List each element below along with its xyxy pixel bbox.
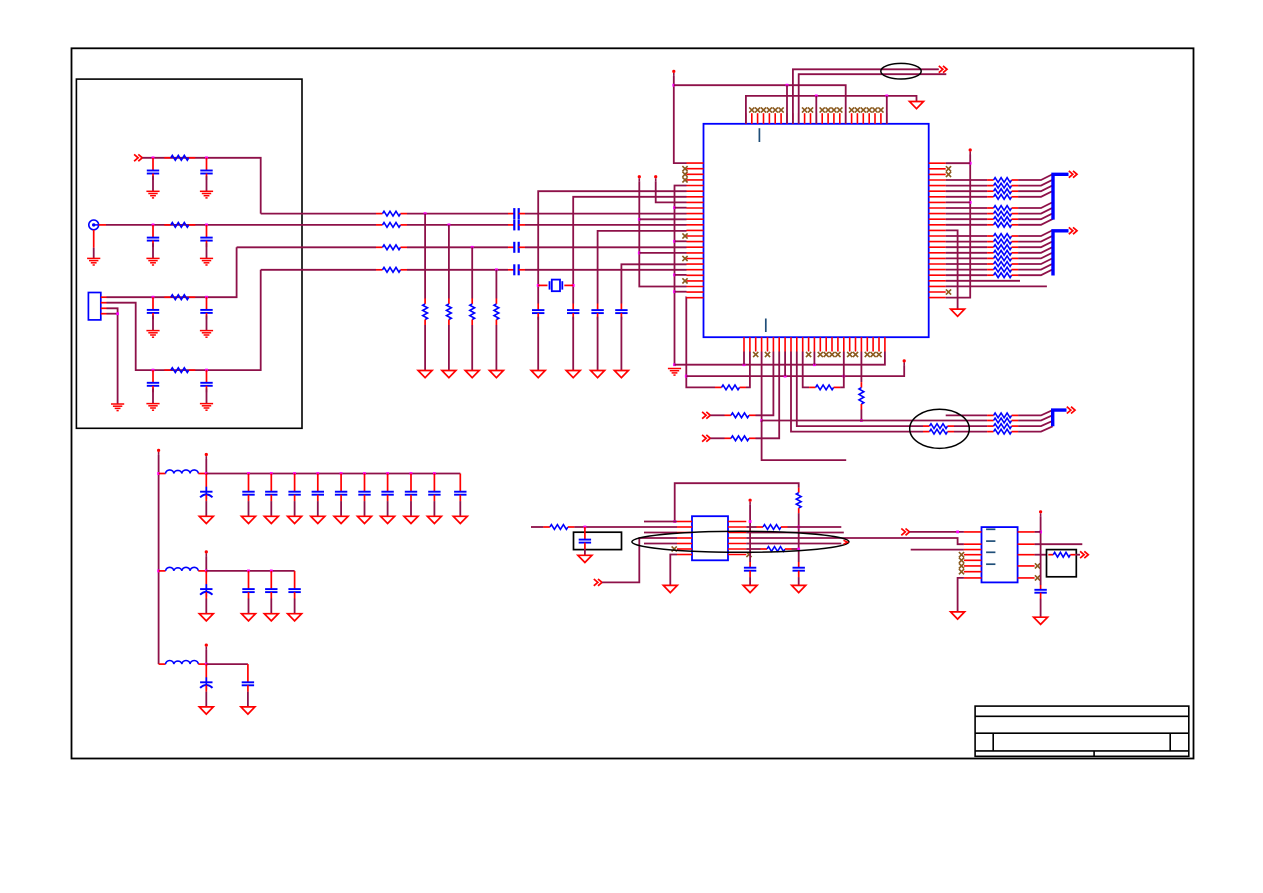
junction bbox=[797, 526, 800, 529]
wire row3 left bbox=[644, 532, 677, 534]
wire L4 c bbox=[525, 269, 687, 271]
wire row3 right bbox=[746, 532, 844, 534]
ground bbox=[442, 371, 456, 378]
ground bbox=[199, 707, 213, 714]
wire FB2 out bbox=[205, 556, 207, 571]
wire C gnd bbox=[459, 501, 461, 516]
connector J1 coax bbox=[89, 220, 106, 230]
wire RN1 out 5 bbox=[1018, 208, 1053, 214]
wire C4 gnd bbox=[206, 243, 208, 258]
resistor RN2 7 bbox=[987, 273, 1018, 278]
capacitor C19 bbox=[793, 562, 805, 577]
junction bbox=[270, 472, 273, 475]
junction bbox=[152, 296, 155, 299]
port DATA3 bbox=[1067, 407, 1075, 414]
capacitor C18 bbox=[744, 562, 756, 577]
bus DATA2 bbox=[1053, 231, 1069, 276]
junction bbox=[293, 472, 296, 475]
wire RN3 out 0 bbox=[1018, 410, 1053, 415]
wire C15 gnd bbox=[597, 317, 599, 371]
wire U1 rpin g2 1 bbox=[946, 241, 987, 243]
wire VDD6 rail bbox=[749, 505, 751, 562]
ground bbox=[146, 404, 159, 411]
port MOSI bbox=[901, 529, 909, 536]
capacitor C30 bbox=[428, 474, 440, 502]
wire C gnd bbox=[294, 501, 296, 516]
wire U1 rpin g1 3 bbox=[946, 196, 987, 198]
wire v3 bbox=[598, 231, 687, 304]
IC U2 body bbox=[692, 516, 728, 560]
junction bbox=[813, 363, 816, 366]
wire BL4b bbox=[954, 431, 987, 433]
wire U1 pin0 riser bbox=[674, 76, 687, 163]
wire v5 pin10 bbox=[639, 218, 686, 220]
ground bbox=[242, 516, 256, 523]
ground bbox=[199, 614, 213, 621]
wire RN1 out 7 bbox=[1018, 219, 1053, 225]
wire RN2 out 4 bbox=[1018, 252, 1053, 258]
wire RN2 out 3 bbox=[1018, 247, 1053, 253]
resistor RN2 4 bbox=[987, 256, 1018, 261]
resistor RN2 5 bbox=[987, 262, 1018, 267]
junction bbox=[743, 363, 746, 366]
wire C13 gnd bbox=[537, 317, 539, 371]
ellipse highlight top bbox=[881, 63, 921, 79]
wire dropper 2 gnd bbox=[448, 325, 450, 371]
wire osc loop bbox=[675, 483, 799, 521]
wire C7 gnd bbox=[152, 388, 154, 403]
resistor RN1 7 bbox=[987, 222, 1018, 227]
capacitor C12 series bbox=[508, 264, 525, 275]
wire RN3 out 2 bbox=[1018, 421, 1053, 426]
port P1 input bbox=[134, 154, 142, 161]
ground bbox=[288, 614, 302, 621]
wire RN2 out 5 bbox=[1018, 258, 1053, 264]
U3 right no-connects bbox=[1035, 563, 1040, 580]
junction bbox=[638, 252, 641, 255]
ground bbox=[951, 612, 965, 619]
ground bbox=[404, 516, 418, 523]
wire v2 bbox=[573, 197, 686, 304]
wire CLK out bbox=[793, 69, 939, 124]
wire RN1 out 3 bbox=[1018, 191, 1053, 197]
wire dropper 3 bbox=[471, 247, 473, 298]
resistor R2 bbox=[164, 223, 195, 228]
capacitor C5 bbox=[147, 297, 159, 319]
wire C14 gnd bbox=[572, 317, 574, 371]
power filter section box bbox=[76, 79, 302, 428]
wire C gnd bbox=[294, 599, 296, 614]
capacitor C35 bbox=[288, 571, 300, 599]
wire VDD7 rail bbox=[1040, 516, 1042, 585]
wire L3 c bbox=[525, 246, 687, 248]
U1 right pins bbox=[929, 163, 946, 297]
wire stub 460 bbox=[762, 421, 847, 461]
junction bbox=[969, 201, 972, 204]
resistor R28 bbox=[1048, 552, 1075, 557]
ground bbox=[200, 331, 213, 338]
U1 right no-connects bbox=[946, 166, 951, 294]
wire RN1 out 4 bbox=[1018, 202, 1053, 208]
ground bbox=[591, 371, 605, 378]
wire row3 bbox=[107, 247, 237, 297]
junction bbox=[363, 472, 366, 475]
junction bbox=[433, 472, 436, 475]
wire Cp1 gnd bbox=[205, 599, 207, 614]
capacitor C15 bbox=[591, 304, 603, 320]
IC U3 body bbox=[982, 527, 1018, 582]
wire C17 gnd bbox=[584, 549, 586, 556]
capacitor C34 bbox=[265, 571, 277, 599]
wire U3 r3 a bbox=[1035, 554, 1047, 556]
ground bbox=[146, 191, 159, 198]
capacitor C11 series bbox=[508, 242, 525, 253]
junction bbox=[786, 84, 789, 87]
resistor R11 bbox=[470, 298, 475, 325]
junction bbox=[673, 206, 676, 209]
junction bbox=[537, 284, 540, 287]
junction bbox=[448, 224, 451, 227]
resistor R18 bbox=[809, 385, 840, 390]
wire J2 pin4 bbox=[107, 313, 118, 315]
port DATA2 bbox=[1069, 227, 1077, 234]
U3 internal marks bbox=[986, 529, 995, 564]
capacitor C16 bbox=[615, 304, 627, 320]
wire C19 gnd bbox=[798, 577, 800, 585]
resistor R23 bbox=[923, 429, 954, 434]
page border bbox=[72, 48, 1194, 758]
wire C gnd bbox=[248, 501, 250, 516]
wire C16 gnd bbox=[620, 317, 622, 371]
resistor R3 bbox=[164, 295, 195, 300]
wire osc in a bbox=[531, 526, 543, 528]
capacitor C9 series bbox=[508, 208, 525, 219]
capacitor C10 series bbox=[508, 219, 525, 230]
ground bbox=[531, 371, 545, 378]
junction bbox=[152, 369, 155, 372]
wire L4 a bbox=[261, 269, 376, 271]
wire row1 stub bbox=[644, 521, 677, 523]
capacitor C23 bbox=[265, 474, 277, 502]
wire R18 right bbox=[840, 352, 844, 388]
wire U1 rpin g1 2 bbox=[946, 190, 987, 192]
U3 right pins bbox=[1018, 532, 1035, 578]
wire v1 bbox=[538, 191, 686, 303]
junction bbox=[152, 224, 155, 227]
wire LC row2 bbox=[206, 570, 294, 572]
wire right rail bbox=[946, 155, 971, 298]
wire U1 rpin g1 5 bbox=[946, 213, 987, 215]
wire RN1 out 1 bbox=[1018, 180, 1053, 186]
wire dropper 2 bbox=[448, 225, 450, 299]
junction bbox=[685, 375, 688, 378]
ground bbox=[743, 585, 757, 592]
ground bbox=[146, 331, 159, 338]
U1 top no-connects bbox=[749, 107, 883, 112]
wire pin b0 bbox=[743, 352, 745, 365]
ellipse highlight osc bbox=[632, 531, 849, 552]
wire row4 right bbox=[746, 538, 964, 544]
capacitor C33 bbox=[242, 571, 254, 599]
power pin V2 bbox=[205, 453, 208, 459]
junction bbox=[316, 472, 319, 475]
wire J1 gnd stem bbox=[93, 230, 95, 248]
ground bbox=[146, 258, 159, 265]
wire U1 rpin g2 6 bbox=[946, 269, 987, 271]
junction bbox=[205, 472, 208, 475]
ground bbox=[288, 516, 302, 523]
capacitor C25 bbox=[312, 474, 324, 502]
wire rail pin0 bbox=[946, 162, 971, 164]
ground bbox=[264, 516, 278, 523]
wire R21 to pin6 bbox=[756, 352, 780, 439]
wire BL4 bbox=[791, 352, 923, 432]
junction bbox=[270, 570, 273, 573]
wire row2 right a bbox=[746, 526, 756, 528]
resistor RN3 3 bbox=[987, 429, 1018, 434]
U1 bottom no-connects bbox=[753, 352, 882, 357]
ground bbox=[381, 516, 395, 523]
wire row5 right bbox=[746, 543, 841, 545]
wire C2 gnd bbox=[206, 176, 208, 191]
U1 bottom pins bbox=[744, 337, 885, 351]
wire row2 right b bbox=[788, 526, 842, 528]
wire C18 gnd bbox=[749, 577, 751, 585]
ground bbox=[566, 371, 580, 378]
wire C gnd bbox=[317, 501, 319, 516]
wire L2 c bbox=[525, 224, 687, 226]
wire U1 rpin g2 2 bbox=[946, 246, 987, 248]
resistor R21 bbox=[725, 436, 756, 441]
ground bbox=[311, 516, 325, 523]
junction bbox=[749, 520, 752, 523]
wire BL1 bbox=[946, 414, 987, 416]
ground bbox=[951, 309, 965, 316]
ground bbox=[418, 371, 432, 378]
wire RN1 out 6 bbox=[1018, 213, 1053, 219]
resistor RN2 2 bbox=[987, 245, 1018, 250]
junction bbox=[673, 240, 676, 243]
wire v6 bbox=[656, 181, 687, 202]
wire U3 r1 bbox=[1035, 531, 1041, 533]
wire line A bbox=[675, 352, 885, 365]
resistor R25 bbox=[543, 525, 574, 530]
resistor R27 bbox=[761, 547, 792, 552]
inductor FB3 bbox=[159, 661, 207, 665]
wire RN2 out 2 bbox=[1018, 241, 1053, 247]
port MISO bbox=[1080, 551, 1088, 558]
power pin V4 bbox=[205, 644, 208, 650]
ground bbox=[663, 585, 677, 592]
wire pin b7 bbox=[784, 352, 786, 377]
wire C8 gnd bbox=[206, 388, 208, 403]
capacitor C32 polarized bbox=[200, 571, 212, 599]
resistor R4 bbox=[164, 368, 195, 373]
wire C6 gnd bbox=[206, 316, 208, 331]
resistor RN1 1 bbox=[987, 183, 1018, 188]
wire C20 gnd bbox=[1040, 599, 1042, 618]
wire BL3 bbox=[797, 352, 923, 427]
ground bbox=[668, 369, 681, 376]
wire C gnd bbox=[364, 501, 366, 516]
wire row1 bbox=[142, 158, 260, 214]
wire port GP1 bbox=[602, 538, 677, 582]
wire pin3 riser bbox=[761, 352, 763, 421]
junction bbox=[860, 419, 863, 422]
wire top A pin12 bbox=[815, 96, 817, 124]
port CLK bbox=[939, 66, 947, 73]
crystal Y1 bbox=[538, 280, 573, 292]
capacitor C27 bbox=[358, 474, 370, 502]
junction bbox=[1039, 531, 1042, 534]
ground bbox=[614, 371, 628, 378]
U1 top pins bbox=[746, 113, 887, 124]
wire RN3 out 1 bbox=[1018, 415, 1053, 420]
U2 right pins bbox=[728, 522, 746, 555]
junction bbox=[584, 526, 587, 529]
ground bbox=[334, 516, 348, 523]
ground bbox=[358, 516, 372, 523]
ground bbox=[242, 614, 256, 621]
capacitor C21 polarized bbox=[200, 474, 212, 502]
wire R18 left bbox=[803, 352, 809, 388]
ground bbox=[465, 371, 479, 378]
wire rail to pin23 bbox=[675, 291, 687, 293]
wire L4 b bbox=[407, 269, 508, 271]
capacitor C1 bbox=[147, 158, 159, 180]
wire port IN2 bbox=[710, 437, 724, 439]
capacitor C4 bbox=[200, 225, 212, 247]
ground bbox=[792, 585, 806, 592]
junction bbox=[956, 531, 959, 534]
resistor RN2 3 bbox=[987, 250, 1018, 255]
annotation box R28 bbox=[1047, 550, 1077, 577]
U3 left no-connects bbox=[959, 552, 964, 574]
wire pin22 bbox=[946, 285, 1047, 287]
wire RN1 out 0 bbox=[1018, 174, 1053, 180]
capacitor C20 bbox=[1034, 585, 1046, 599]
wire C1 gnd bbox=[152, 176, 154, 191]
resistor RN2 6 bbox=[987, 267, 1018, 272]
ground bbox=[910, 102, 924, 109]
port IN1 bbox=[702, 412, 710, 419]
junction bbox=[205, 156, 208, 159]
junction bbox=[247, 570, 250, 573]
resistor R12 bbox=[494, 298, 499, 325]
ellipse pointer mark bbox=[844, 540, 848, 544]
ground bbox=[489, 371, 503, 378]
ground bbox=[241, 707, 255, 714]
junction bbox=[969, 162, 972, 165]
capacitor C13 bbox=[532, 304, 544, 320]
capacitor C29 bbox=[405, 474, 417, 502]
junction bbox=[340, 472, 343, 475]
resistor RN1 2 bbox=[987, 189, 1018, 194]
junction bbox=[638, 218, 641, 221]
wire C3 gnd bbox=[152, 243, 154, 258]
junction bbox=[673, 290, 676, 293]
wire rail to pin20 bbox=[675, 274, 687, 276]
bus DATA1 bbox=[1053, 174, 1069, 219]
resistor RN1 5 bbox=[987, 211, 1018, 216]
junction bbox=[471, 246, 474, 249]
wire BL3b bbox=[954, 425, 987, 427]
wire C gnd bbox=[270, 501, 272, 516]
resistor R20 bbox=[725, 413, 756, 418]
resistor RN2 0 bbox=[987, 234, 1018, 239]
ellipse highlight mid bbox=[910, 409, 970, 448]
resistor R22 bbox=[923, 424, 954, 429]
wire pin21 bbox=[946, 280, 1020, 282]
resistor R26 bbox=[757, 525, 788, 530]
junction bbox=[885, 95, 888, 98]
junction bbox=[572, 284, 575, 287]
wire R19 top bbox=[860, 352, 862, 383]
U2 left pins bbox=[677, 522, 692, 555]
wire J2 pin2 to row4 bbox=[107, 270, 261, 370]
wire top D bbox=[799, 74, 947, 124]
junction bbox=[760, 419, 763, 422]
wire U1 rpin g1 1 bbox=[946, 185, 987, 187]
ground bbox=[199, 516, 213, 523]
wire U1 rpin g1 7 bbox=[946, 224, 987, 226]
power pin VDD3 bbox=[672, 70, 675, 76]
wire row2 bbox=[106, 224, 376, 226]
resistor R17 bbox=[715, 385, 746, 390]
capacitor C17 bbox=[579, 527, 591, 549]
resistor RN1 3 bbox=[987, 194, 1018, 199]
wire C gnd bbox=[433, 501, 435, 516]
port IN2 bbox=[702, 435, 710, 442]
U1 left no-connects bbox=[682, 166, 687, 283]
resistor R8 bbox=[376, 267, 407, 272]
junction bbox=[205, 224, 208, 227]
wire row6 right a bbox=[746, 548, 760, 550]
ground bbox=[578, 555, 592, 562]
wire U1 rpin g2 4 bbox=[946, 257, 987, 259]
power pin VDD7 bbox=[1039, 510, 1042, 516]
capacitor C24 bbox=[288, 474, 300, 502]
wire RN2 out 1 bbox=[1018, 236, 1053, 242]
junction bbox=[673, 274, 676, 277]
U1 left pins bbox=[687, 163, 704, 298]
wire FB1 out bbox=[205, 459, 207, 474]
junction bbox=[410, 472, 413, 475]
wire left rail bbox=[675, 186, 687, 365]
ground bbox=[427, 516, 441, 523]
wire pin b12 bbox=[813, 352, 815, 365]
wire U3 in3 bbox=[911, 549, 964, 551]
wire U1 rpin g1 0 bbox=[946, 179, 987, 181]
wire L1 b bbox=[407, 213, 508, 215]
inductor FB1 bbox=[159, 470, 207, 474]
wire J1 gnd stem2 bbox=[93, 248, 95, 259]
wire rail to pin14 bbox=[675, 240, 687, 242]
capacitor C14 bbox=[567, 304, 579, 320]
junction bbox=[386, 472, 389, 475]
junction bbox=[424, 212, 427, 215]
title block bbox=[975, 706, 1189, 756]
wire R20 to pin5 bbox=[756, 352, 774, 416]
bus DATA3 bbox=[1053, 410, 1067, 426]
wire Cp2 gnd bbox=[205, 692, 207, 707]
wire RN1 out 2 bbox=[1018, 185, 1053, 191]
junction bbox=[157, 570, 160, 573]
power pin VDD5 bbox=[903, 359, 906, 365]
wire L1 c bbox=[525, 213, 687, 215]
junction bbox=[205, 369, 208, 372]
resistor R7 bbox=[376, 245, 407, 250]
